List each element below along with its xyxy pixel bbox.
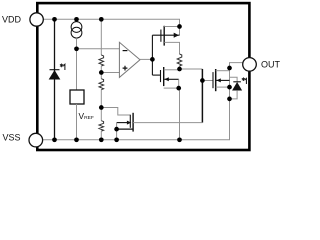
resistor R3 (ladder bottom): [99, 121, 104, 131]
svg-text:OUT: OUT: [261, 59, 281, 69]
junction VSS rail / Q4: [114, 137, 119, 142]
transistor Q1 channel bar: [163, 26, 165, 46]
diode D1 cathode bar: [50, 69, 60, 71]
wire node C: R4/Q2 drain across to Q3 gate column: [180, 68, 203, 70]
junction VSS rail / Vref: [74, 137, 79, 142]
transistor Q2 channel bar: [163, 67, 165, 86]
wire current-source column x=76.5: [76, 19, 78, 21]
junction Q4 source/bulk: [114, 127, 119, 132]
transistor Q3 (output NMOS) gate bar: [212, 72, 214, 88]
resistor R1 (ladder top): [99, 55, 104, 66]
wire node A down to Vref box: [76, 49, 78, 90]
junction Q1 source / VDD drop: [177, 24, 182, 29]
transistor Q2 gate wire from node B: [152, 74, 160, 76]
transistor Q1 gate/bulk line with right arrow: [152, 34, 179, 36]
pin OUT: [243, 58, 257, 72]
transistor Q1 source lead to VDD column: [164, 26, 179, 28]
junction VDD rail / I1: [74, 17, 79, 22]
diode D1 (protection diode, anode down): [49, 71, 60, 80]
transistor Q3 bulk lead with left arrow: [216, 79, 229, 81]
junction Q3 gate tap: [200, 78, 205, 83]
label *1 for diode D2: [242, 77, 245, 81]
transistor Q4 source lead: [117, 128, 134, 130]
wire node B vertical (gates of Q1 and Q2): [151, 35, 153, 75]
junction VDD rail / D1: [52, 17, 57, 22]
svg-text:VDD: VDD: [2, 15, 22, 25]
wire op-amp output to node B: [140, 58, 152, 60]
junction Q3 source: [227, 85, 232, 90]
transistor Q2 drain lead up to node C: [164, 69, 180, 71]
junction Q2 source/bulk: [176, 86, 181, 91]
transistor Q3 drain lead to OUT node: [216, 70, 230, 72]
pin VDD: [30, 13, 43, 26]
wire Vref box to VSS rail: [76, 104, 78, 140]
junction hysteresis tap: [99, 105, 104, 110]
transistor Q2 source lead: [164, 87, 180, 89]
transistor Q4 drain lead to node C column: [133, 122, 202, 124]
wire non-inverting input: ladder tap to op-amp plus: [101, 72, 119, 74]
wire from current source to node A: [76, 38, 78, 49]
wire resistor-ladder column x=101.3 from VDD rail: [100, 19, 102, 55]
node N1 / diode D1 branch: black vertical VDD-to-VSS at x=54.4: [54, 19, 56, 140]
diode D2 cathode bar: [233, 81, 241, 83]
diode D2 anode link down to VSS branch: [230, 90, 238, 99]
diode D2 (anode down): [233, 83, 242, 91]
wire hysteresis tap to Q4 gate: [101, 108, 130, 116]
transistor Q3 channel bar: [215, 69, 217, 91]
transistor Q2 bulk lead with left arrow: [164, 78, 178, 80]
junction VDD rail / ladder: [99, 17, 104, 22]
junction OUT node top: [227, 66, 232, 71]
junction + tap: [99, 70, 104, 75]
junction VSS rail / Q2: [177, 137, 182, 142]
resistor R2 (ladder middle): [99, 79, 104, 90]
junction VSS rail / ladder: [99, 137, 104, 142]
wire R1 to R2 with + tap: [100, 66, 102, 79]
wire node C vertical down to Q4 drain level: [201, 69, 203, 123]
transistor Q1 drain lead down to R4: [164, 42, 179, 54]
transistor Q3 source lead: [216, 86, 230, 88]
outer IC boundary box: [37, 3, 249, 150]
wire inverting input: node A to op-amp minus: [77, 48, 120, 50]
wire R2 to R3 with hysteresis tap: [100, 90, 102, 121]
label *1 for diode D1: [60, 64, 63, 68]
transistor Q4 channel bar: [132, 113, 134, 132]
junction D2 anode / VSS branch: [227, 97, 232, 102]
transistor Q2 (NMOS driver) gate bar: [160, 70, 162, 82]
node B junction: [150, 57, 155, 62]
op-amp U1 minus sign: [123, 50, 128, 52]
svg-text:VSS: VSS: [3, 133, 21, 143]
op-amp U1 (comparator triangle): [119, 42, 140, 77]
junction VSS rail / D1: [52, 137, 57, 142]
op-amp U1 plus sign: [123, 66, 128, 71]
resistor R4: [177, 54, 182, 66]
wire R3 to VSS rail: [100, 131, 102, 140]
current source I1 (two overlapping circles): [71, 22, 82, 33]
transistor Q4 (hysteresis NMOS) gate bar: [129, 115, 131, 128]
Vref block U2: [70, 90, 84, 104]
wire Q2 source down to VSS rail: [179, 88, 181, 140]
node C junction at R4: [177, 67, 182, 72]
node A junction: [74, 46, 79, 51]
wire Q4 source down to VSS rail: [116, 129, 118, 140]
transistor Q4 bulk lead with right arrow: [117, 122, 127, 124]
wire VSS rail from VSS pin along bottom, up right side to OUT node: [43, 63, 243, 140]
pin VSS: [29, 133, 43, 147]
wire gate tap to Q3 gate: [202, 80, 213, 82]
transistor Q1 (PMOS) gate bar: [160, 30, 162, 42]
diode D2 cathode link to OUT node: [230, 77, 238, 82]
wire VDD rail from VDD pin to top-right PMOS source column: [43, 19, 179, 35]
